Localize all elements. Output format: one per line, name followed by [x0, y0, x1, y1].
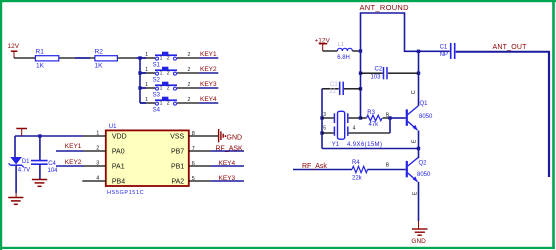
- svg-text:Y1: Y1: [332, 142, 340, 148]
- svg-text:22k: 22k: [352, 175, 363, 181]
- svg-text:3: 3: [96, 161, 99, 167]
- svg-text:R3: R3: [367, 110, 375, 116]
- svg-text:2: 2: [96, 146, 99, 152]
- svg-text:PA1: PA1: [112, 163, 125, 170]
- svg-text:ANT_OUT: ANT_OUT: [493, 44, 528, 51]
- svg-text:L1: L1: [338, 42, 344, 48]
- svg-text:KEY2: KEY2: [200, 66, 217, 73]
- svg-text:4.9X6(15M): 4.9X6(15M): [347, 142, 382, 148]
- svg-text:Q1: Q1: [420, 101, 429, 107]
- svg-text:VSS: VSS: [170, 133, 184, 140]
- svg-text:C1: C1: [440, 45, 448, 51]
- svg-text:8: 8: [192, 131, 195, 137]
- svg-text:47k: 47k: [369, 122, 380, 128]
- svg-text:S2: S2: [153, 78, 161, 84]
- svg-text:KEY1: KEY1: [65, 143, 82, 150]
- svg-text:R4: R4: [352, 160, 360, 166]
- svg-text:5: 5: [323, 125, 326, 131]
- svg-text:12V: 12V: [8, 43, 20, 50]
- svg-text:HS5GP151C: HS5GP151C: [107, 190, 144, 196]
- svg-text:4: 4: [353, 125, 356, 131]
- svg-text:KEY1: KEY1: [200, 51, 217, 58]
- svg-text:KEY2: KEY2: [65, 159, 82, 166]
- svg-text:Q2: Q2: [419, 161, 428, 167]
- svg-text:7: 7: [192, 146, 195, 152]
- svg-text:4: 4: [96, 176, 99, 182]
- svg-text:PB4: PB4: [112, 178, 125, 185]
- svg-text:GND: GND: [411, 238, 426, 245]
- svg-text:KEY4: KEY4: [200, 96, 217, 103]
- svg-text:ANT_ROUND: ANT_ROUND: [360, 3, 410, 12]
- svg-text:1: 1: [96, 131, 99, 137]
- svg-text:S3: S3: [153, 93, 161, 99]
- svg-text:C4: C4: [48, 161, 56, 167]
- svg-text:8050: 8050: [419, 114, 433, 120]
- svg-text:22: 22: [329, 89, 336, 95]
- svg-text:NP: NP: [440, 52, 448, 58]
- svg-text:VDD: VDD: [112, 133, 127, 140]
- svg-text:E: E: [411, 139, 417, 143]
- svg-text:S1: S1: [153, 63, 161, 69]
- svg-text:R2: R2: [95, 49, 104, 56]
- svg-text:6: 6: [192, 161, 195, 167]
- svg-text:U1: U1: [109, 124, 117, 130]
- svg-text:C: C: [411, 90, 417, 94]
- svg-text:D1: D1: [22, 159, 30, 165]
- svg-text:104: 104: [48, 168, 59, 174]
- svg-text:RF_Ask: RF_Ask: [302, 163, 327, 170]
- svg-text:GND: GND: [227, 134, 243, 141]
- svg-text:6.8H: 6.8H: [337, 55, 350, 61]
- svg-text:KEY3: KEY3: [219, 175, 236, 182]
- svg-text:4.7V: 4.7V: [18, 168, 30, 174]
- svg-text:3: 3: [323, 112, 326, 118]
- svg-text:1K: 1K: [95, 62, 104, 69]
- svg-text:8050: 8050: [417, 172, 431, 178]
- svg-text:S4: S4: [153, 108, 161, 114]
- svg-text:PB1: PB1: [171, 163, 184, 170]
- svg-text:PA0: PA0: [112, 148, 125, 155]
- svg-text:PB7: PB7: [171, 148, 184, 155]
- svg-text:PA2: PA2: [171, 178, 184, 185]
- svg-text:1K: 1K: [36, 62, 45, 69]
- svg-text:R1: R1: [36, 49, 45, 56]
- svg-text:5: 5: [192, 176, 195, 182]
- svg-text:RF_ASK: RF_ASK: [216, 146, 244, 153]
- svg-text:C3: C3: [330, 82, 338, 88]
- svg-text:103: 103: [371, 75, 382, 81]
- svg-text:E: E: [412, 191, 418, 195]
- svg-text:C2: C2: [375, 67, 383, 73]
- svg-text:KEY3: KEY3: [200, 81, 217, 88]
- svg-text:KEY4: KEY4: [219, 160, 236, 167]
